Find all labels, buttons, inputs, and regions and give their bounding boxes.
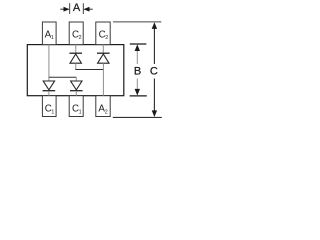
pad C2b (top-right terminal) [96,22,110,45]
diode D3 (lower-left, cathode down) [43,81,56,91]
dimension B bottom tick [130,95,147,97]
svg-text:2: 2 [105,35,108,41]
wire from pad C2 (top-middle) to diode D1 cathode [75,45,77,54]
wire D3 cathode to pad C1 [48,91,50,96]
wire joining D3 and D4 anodes [49,76,76,78]
dimension A right arrow [83,7,92,12]
pad C1b (bottom-middle terminal) [69,96,83,117]
pad A2 (bottom-right terminal) [96,96,110,117]
wire joining D1 and D2 anodes [75,69,104,71]
dimension C bottom extension line [113,116,162,118]
dimension B down arrowhead [135,89,140,96]
svg-text:A: A [73,2,81,14]
dimension A left arrow [60,7,69,12]
label C2 top-middle [72,29,82,41]
pad C1 (bottom-left terminal) [42,96,56,117]
dimension B up arrowhead [135,44,140,51]
dimension B line upper segment [136,50,138,65]
dimension B line lower segment [136,79,138,92]
label A2 bottom-right [98,104,107,116]
dimension C line upper segment [153,27,155,64]
svg-text:1: 1 [51,35,54,41]
package body outline [27,45,124,96]
diode D4 (lower-right, cathode down) [70,81,83,91]
wire from pad C2b (top-right) to diode D2 cathode [102,45,104,54]
dimension B top tick [130,43,147,45]
svg-text:2: 2 [105,109,108,115]
diode D1 (upper-left, cathode up) [69,53,82,63]
wire from pad A1 down to D3 anode [48,45,50,81]
dimension A extension line right [82,3,84,14]
svg-text:1: 1 [79,109,82,115]
dimension A extension line left [69,3,71,14]
dimension C up arrowhead [152,22,157,29]
svg-text:1: 1 [51,109,54,115]
wire D2 anode down to pad A2 [102,63,104,95]
svg-text:C: C [150,66,158,78]
wire D1 anode stub down [75,63,77,69]
wire D4 anode stub [75,77,77,81]
dimension C line lower segment [153,79,155,113]
diode D2 (upper-right, cathode up) [97,53,110,63]
svg-text:B: B [134,66,141,78]
pad C2 (top-middle terminal) [69,22,83,45]
dimension C top extension line [113,21,161,23]
label A1 [45,29,54,41]
label C1 bottom-left [45,104,55,116]
dimension C down arrowhead [152,110,157,117]
label C2 top-right [99,29,109,41]
pad A1 (top-left terminal) [42,22,56,45]
svg-text:2: 2 [79,35,82,41]
wire D4 cathode to pad C1b [75,91,77,96]
label C1 bottom-middle [72,104,82,116]
